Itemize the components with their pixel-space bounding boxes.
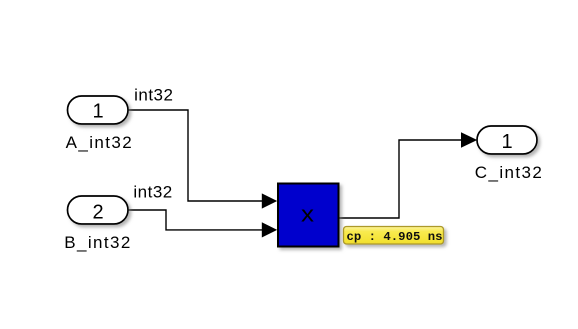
svg-text:int32: int32 bbox=[133, 183, 172, 202]
timing tooltip cp : 4.905 ns bbox=[344, 227, 444, 245]
svg-text:x: x bbox=[301, 202, 314, 227]
wire B: inport 2 to multiplier input 2 bbox=[128, 210, 264, 230]
arrowhead into outport C bbox=[461, 132, 477, 147]
outport block C bbox=[477, 126, 537, 154]
svg-text:cp : 4.905 ns: cp : 4.905 ns bbox=[347, 230, 443, 244]
arrowhead into multiplier input 2 bbox=[262, 222, 277, 237]
multiplier block U1 bbox=[278, 184, 339, 247]
svg-text:A_int32: A_int32 bbox=[66, 133, 133, 152]
output wire: multiplier to outport bbox=[339, 140, 463, 218]
inport block 2 bbox=[68, 196, 129, 224]
wire A: inport 1 to multiplier input 1 bbox=[128, 110, 264, 201]
svg-text:C_int32: C_int32 bbox=[475, 163, 543, 182]
inport block 1 bbox=[68, 96, 129, 124]
svg-text:1: 1 bbox=[501, 131, 512, 153]
svg-text:int32: int32 bbox=[134, 85, 173, 104]
arrowhead into multiplier input 1 bbox=[262, 193, 277, 208]
svg-text:B_int32: B_int32 bbox=[64, 233, 131, 252]
svg-text:1: 1 bbox=[92, 101, 103, 123]
svg-text:2: 2 bbox=[92, 202, 103, 224]
